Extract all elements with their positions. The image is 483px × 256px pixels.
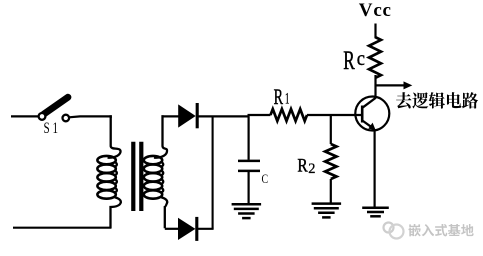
wire D2 to bus [198,228,214,230]
label char 辑 [429,92,445,108]
watermark logo circle large [390,225,404,239]
ground under emitter [362,206,389,209]
svg-text:R: R [343,46,355,75]
ground under capacitor [232,203,262,206]
resistor R1 [271,109,308,121]
resistor R2 [325,144,336,179]
ground under R2 [312,202,342,205]
capacitor lower wire [248,171,250,205]
wire AC input top-left [11,115,39,117]
output arrowhead [404,81,413,89]
transistor collector diagonal [362,98,375,108]
transistor base bar [361,106,364,123]
svg-text:c: c [357,48,365,70]
svg-text:Vcc: Vcc [359,0,392,21]
svg-text:1: 1 [285,91,289,108]
emitter lead down [374,130,376,209]
wire top rail cap junction to R1 [248,114,271,116]
resistor Rc [369,37,381,78]
transistor emitter diagonal [362,121,372,128]
wire R2 to ground [330,179,332,204]
label char 电 [447,92,461,108]
wire secondary bottom to diode D2 [165,228,179,230]
svg-text:R: R [297,156,307,177]
watermark char 基 [448,224,461,236]
switch S1 right contact [63,115,70,122]
diode D2 [178,218,195,240]
transformer secondary winding [154,115,167,157]
wire top rail D1 to cap junction [198,115,250,117]
transistor emitter arrowhead [368,123,375,131]
wire R2 branch [330,115,332,144]
label char 去 [396,92,411,108]
switch S1 blade [44,97,69,114]
wire bottom-left return [13,227,111,229]
capacitor C bottom plate [238,170,260,173]
rectifier output bus [212,116,214,228]
capacitor C top plate [238,160,260,163]
watermark char 式 [435,224,447,236]
svg-text:C: C [262,171,269,186]
switch S1 left contact [39,113,46,120]
transistor Q1 circle [355,97,389,131]
wire switch to transformer [69,116,111,118]
collector lead up to junction [374,75,376,99]
wire Vcc to Rc [374,24,376,39]
svg-text:R: R [274,84,284,109]
transformer primary winding [108,115,121,157]
wire secondary top to diode D1 [162,115,179,117]
svg-text:S 1: S 1 [44,120,59,137]
watermark char 入 [422,224,434,236]
capacitor C branch wire [248,116,250,159]
transformer core [131,142,135,211]
svg-text:2: 2 [308,161,315,177]
wire R1 to base [307,114,361,116]
output arrow wire [376,84,405,86]
watermark char 嵌 [408,224,420,236]
watermark logo circle small [384,223,394,233]
watermark char 地 [461,224,474,236]
label char 路 [462,92,478,108]
diode D1 [178,104,196,127]
label char 逻 [412,92,428,108]
